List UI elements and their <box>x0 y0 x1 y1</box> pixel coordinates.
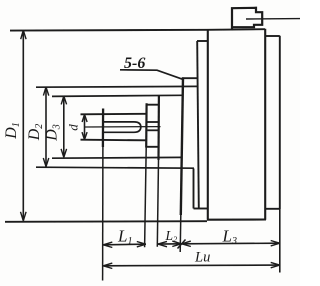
slash at L2/L3 junction <box>178 240 186 249</box>
L4 arrow right <box>271 262 280 267</box>
svg-text:D2: D2 <box>26 124 45 142</box>
dimension D3 line <box>63 96 65 157</box>
D3 arrow down <box>61 149 67 157</box>
L4 arrow left <box>103 263 112 268</box>
L1 arrow left <box>103 242 112 247</box>
D2 arrow down <box>43 158 49 167</box>
dimension d line <box>84 115 86 140</box>
keyway slot <box>104 122 141 132</box>
terminal box <box>232 8 262 30</box>
shaft bottom edge / d extension <box>81 139 147 142</box>
svg-text:Lu: Lu <box>194 250 210 266</box>
spigot top / D3 extension line <box>52 95 182 96</box>
leader wire from terminal box <box>246 18 300 20</box>
L1 arrow right <box>137 242 146 247</box>
flange top edge <box>182 77 198 79</box>
D1 arrow up <box>21 30 26 39</box>
D2 top extension line <box>36 85 198 88</box>
svg-text:D1: D1 <box>3 122 22 140</box>
spigot bottom / D3 extension line <box>52 156 182 159</box>
rear bearing shield <box>265 36 280 273</box>
flange bottom / D2 extension line <box>36 167 194 168</box>
svg-text:d: d <box>66 124 81 131</box>
spigot face / L2 extension <box>157 96 160 161</box>
d arrow up <box>82 114 87 122</box>
boss face / L1 extension <box>145 103 148 147</box>
bearing boss <box>146 105 159 147</box>
wire top extension / body top line <box>10 29 265 30</box>
L2 arrow right <box>172 241 181 246</box>
D2 arrow up <box>43 87 48 96</box>
D3 arrow up <box>61 96 66 104</box>
dimension D2 line <box>45 87 47 166</box>
d arrow down <box>82 132 87 140</box>
callout 5-6 underline and leader <box>120 70 184 80</box>
L3 arrow right <box>271 241 280 246</box>
L2 arrow left <box>158 241 167 246</box>
shaft top edge / d extension <box>81 113 147 116</box>
shaft end face / L extension line <box>102 109 104 148</box>
flange face / L extension <box>181 77 183 215</box>
motor body <box>207 29 266 220</box>
dimension L2 line <box>158 243 181 245</box>
dimension L3 line <box>182 242 280 245</box>
svg-text:5-6: 5-6 <box>124 55 145 72</box>
svg-text:L3: L3 <box>222 227 237 248</box>
dimension L1 line <box>103 243 146 246</box>
D1 arrow down <box>21 212 27 221</box>
svg-text:L2: L2 <box>165 228 179 244</box>
svg-text:L1: L1 <box>117 227 132 248</box>
wire bottom extension line D1 <box>5 220 207 223</box>
dimension L4 line <box>103 264 279 267</box>
L3 arrow left <box>182 241 191 246</box>
shaft step lines <box>148 122 159 130</box>
front ring (end bell) <box>194 41 208 209</box>
dimension D1 line <box>22 30 24 220</box>
centerline <box>85 126 161 128</box>
